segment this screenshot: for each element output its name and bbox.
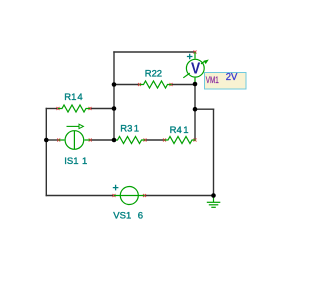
svg-text:1: 1 (183, 125, 188, 136)
svg-text:R1: R1 (64, 92, 76, 103)
svg-text:4: 4 (77, 92, 82, 103)
svg-text:R4: R4 (170, 125, 182, 136)
svg-text:1: 1 (82, 156, 87, 167)
svg-text:IS1: IS1 (64, 156, 78, 167)
svg-text:6: 6 (138, 210, 143, 221)
svg-text:2: 2 (157, 69, 162, 80)
svg-text:1: 1 (134, 124, 139, 135)
svg-text:V: V (191, 61, 201, 78)
svg-text:R2: R2 (145, 69, 157, 80)
svg-text:2V: 2V (226, 72, 238, 83)
svg-text:VS1: VS1 (113, 210, 131, 221)
svg-text:R3: R3 (120, 124, 132, 135)
svg-text:VM1: VM1 (206, 75, 219, 85)
